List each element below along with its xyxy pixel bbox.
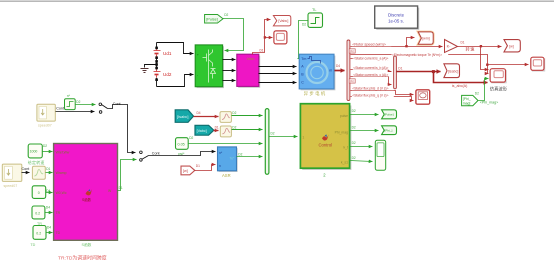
wire electromagnetic torque	[351, 55, 488, 65]
mux for stator currents	[394, 56, 397, 89]
svg-text:D4: D4	[336, 64, 340, 68]
wire Vabc out B to machine	[259, 73, 297, 75]
wire ASR to mux	[237, 156, 263, 158]
wire TL to machine Tm	[298, 21, 309, 59]
from tag [Pulse] green	[205, 13, 229, 23]
wire ground branch	[145, 65, 157, 68]
svg-text:Vabc: Vabc	[247, 57, 255, 61]
svg-text:[w]: [w]	[183, 169, 188, 173]
svg-text:TL: TL	[312, 8, 316, 12]
goto tag [Isabc]	[444, 64, 460, 78]
manual switch 2	[140, 151, 160, 161]
svg-text:D2: D2	[271, 132, 275, 136]
svg-text:<Stator current is_b (A)>: <Stator current is_b (A)>	[353, 66, 388, 70]
scope waveforms (4 input)	[490, 69, 508, 93]
powergui block	[375, 6, 419, 30]
from tag [Vabc] teal	[195, 125, 219, 135]
svg-text:D2: D2	[352, 126, 356, 130]
svg-text:D2: D2	[352, 141, 356, 145]
scope (Vab scope)	[274, 31, 287, 44]
wire Vabc out A to machine	[259, 66, 297, 68]
wire Phi_mag to scope2	[479, 79, 489, 101]
from file block (speed)	[37, 104, 55, 127]
svg-text:Ud2: Ud2	[163, 72, 172, 77]
tiny tag row2	[349, 49, 355, 53]
wire rotor speed	[351, 46, 443, 48]
wire bridge out A	[223, 59, 236, 61]
svg-text:Wref,Ww: Wref,Ww	[56, 150, 70, 154]
tiny tag row6	[349, 79, 355, 83]
svg-text:D2: D2	[232, 125, 236, 129]
svg-text:Te*: Te*	[230, 156, 236, 160]
wire Control out k_t	[350, 146, 373, 148]
svg-text:[Phi_]: [Phi_]	[384, 129, 392, 133]
wire stator current is_c	[351, 77, 392, 85]
wire DC bottom to bridge	[157, 75, 194, 87]
wire Pulse to bridge gate	[223, 19, 244, 51]
svg-text:Ud1: Ud1	[163, 51, 172, 56]
mux (4 signals)	[265, 109, 269, 175]
svg-text:<Phi_mag>: <Phi_mag>	[480, 101, 498, 105]
wire switch1 to switch2	[108, 105, 136, 153]
wire bridge out B	[223, 70, 236, 72]
manual switch 1	[99, 102, 121, 113]
svg-text:speed07: speed07	[4, 184, 18, 188]
svg-text:[wm]: [wm]	[422, 37, 429, 41]
constant 0	[32, 186, 50, 199]
svg-text:1e-05 s.: 1e-05 s.	[388, 19, 404, 24]
svg-text:[Pulse]: [Pulse]	[384, 113, 394, 117]
svg-text:0.2: 0.2	[35, 212, 40, 216]
svg-text:k_t: k_t	[343, 145, 348, 149]
svg-text:1: 1	[302, 135, 304, 139]
svg-text:D1: D1	[119, 186, 123, 190]
svg-text:D1: D1	[196, 164, 200, 168]
scope Te	[531, 57, 545, 71]
from tag [Isabc] teal	[175, 110, 201, 123]
svg-text:<Stator flux phis_q (V s)>: <Stator flux phis_q (V s)>	[352, 93, 388, 97]
constant 1000 (speed set)	[28, 144, 48, 165]
wire Isabc to filter1	[194, 116, 219, 118]
wire stator flux phis_q	[351, 97, 414, 101]
universal bridge U1 (IGBT inverter)	[195, 45, 224, 88]
svg-text:D2: D2	[76, 100, 80, 104]
wire 0.2TD to sfun	[47, 232, 53, 234]
wire gain to goto w	[458, 46, 502, 48]
svg-text:n: n	[219, 164, 221, 168]
goto tag [wm] highlighted	[418, 32, 433, 44]
constant 0.2 TD	[30, 226, 51, 248]
from tag [Phi] green	[462, 92, 480, 106]
svg-text:0.05: 0.05	[178, 142, 185, 146]
wire Control out Phi_mag	[350, 130, 379, 132]
svg-text:Discrete: Discrete	[388, 13, 405, 18]
constant 0.2 TR	[32, 206, 50, 226]
wire step to switch1	[76, 104, 96, 106]
svg-text:<Stator flux phis_d (V s)>: <Stator flux phis_d (V s)>	[352, 87, 388, 91]
wire fromfile to switch1	[56, 111, 95, 113]
svg-text:给定转速: 给定转速	[28, 159, 45, 165]
wire is_abc to scope2	[434, 72, 488, 83]
svg-text:D2: D2	[238, 153, 242, 157]
three-phase measurement block Vabc (magenta)	[237, 54, 260, 88]
svg-text:D2: D2	[43, 144, 47, 148]
svg-text:<Electromagnetic torque Te (N*: <Electromagnetic torque Te (N*m)>	[392, 53, 442, 57]
svg-text:D1: D1	[398, 67, 402, 71]
wire machine m to bus selector	[335, 70, 345, 72]
goto tag [Phi] green	[382, 126, 397, 135]
wire 0.2TR to sfun	[45, 212, 53, 214]
from tag [w] red	[181, 164, 200, 175]
svg-text:异步电机: 异步电机	[304, 90, 327, 97]
svg-text:+: +	[197, 53, 199, 57]
svg-text:D2: D2	[302, 22, 306, 26]
svg-text:D2: D2	[475, 92, 479, 96]
ramp filter block	[32, 166, 50, 179]
svg-text:TD: TD	[30, 243, 35, 247]
wire torque to scope1	[488, 64, 529, 66]
step source TL	[302, 8, 323, 27]
svg-text:D1: D1	[46, 167, 50, 171]
svg-text:D2: D2	[232, 111, 236, 115]
svg-text:speed07: speed07	[38, 124, 52, 128]
wire DC top to bridge	[157, 43, 194, 54]
svg-text:Wramp: Wramp	[56, 171, 67, 175]
svg-text:W0,Wc: W0,Wc	[56, 191, 67, 195]
svg-text:-: -	[197, 74, 198, 78]
svg-text:D4: D4	[47, 226, 51, 230]
svg-text:D2: D2	[352, 109, 356, 113]
ground	[141, 69, 149, 73]
svg-text:[A]: [A]	[350, 79, 354, 83]
svg-text:0.2: 0.2	[36, 232, 41, 236]
svg-text:mag]: mag]	[463, 101, 471, 105]
svg-text:ASR: ASR	[222, 173, 231, 178]
wire stator current is_a	[351, 58, 392, 60]
wire ramp to sfun	[46, 172, 53, 174]
svg-text:[Isabc]: [Isabc]	[448, 69, 459, 73]
svg-text:Cont: Cont	[22, 167, 30, 171]
wire Vabc to filter2	[214, 130, 219, 132]
wire mux to Control	[269, 136, 298, 138]
svg-text:D2: D2	[352, 156, 356, 160]
node junction dots DC bus	[155, 47, 158, 81]
goto tag [Pulse] green	[382, 110, 397, 119]
svg-text:D1: D1	[461, 40, 465, 44]
wire w to ASR	[195, 165, 216, 171]
svg-text:k_s1: k_s1	[341, 160, 348, 164]
wire Vabc measurement up to goto/scope	[253, 20, 271, 55]
svg-text:0: 0	[38, 191, 40, 195]
svg-text:[Vabc]: [Vabc]	[278, 19, 288, 23]
svg-text:<Stator current is_c (A)>: <Stator current is_c (A)>	[353, 73, 388, 77]
wire is_abc to goto	[397, 71, 441, 73]
svg-text:Cont: Cont	[152, 152, 160, 156]
svg-text:[Vabc]: [Vabc]	[197, 129, 207, 133]
wire Control out pulse	[350, 114, 379, 116]
wire speed to scope2	[481, 47, 489, 70]
svg-text:TR: TR	[56, 211, 61, 215]
svg-text:S函数: S函数	[82, 197, 92, 202]
gain (speed scaling)	[445, 40, 476, 53]
svg-text:[Pulse]: [Pulse]	[206, 18, 218, 22]
svg-text:is_abc(A): is_abc(A)	[452, 84, 468, 88]
battery Ud1	[152, 49, 172, 57]
wire bridge out C	[223, 80, 236, 82]
svg-text:D1: D1	[215, 125, 219, 129]
svg-text:D2: D2	[224, 13, 228, 17]
wire stator flux phis_d	[351, 91, 414, 95]
svg-text:Tm: Tm	[301, 57, 306, 61]
wire sfun output to switch2	[118, 160, 137, 191]
svg-text:[Isabc]: [Isabc]	[177, 114, 188, 119]
wire branch to goto wm	[407, 38, 415, 47]
filter block 1	[220, 111, 237, 123]
svg-text:[w]: [w]	[509, 44, 514, 48]
battery Ud2	[152, 69, 172, 77]
wire torque to scope2	[488, 65, 489, 74]
wire filter1 to mux	[232, 115, 263, 117]
svg-text:C: C	[301, 81, 304, 85]
Control block (MATLAB fcn)	[300, 104, 351, 178]
wire DC vertical bus	[156, 43, 158, 87]
XY graph (flux)	[416, 90, 430, 104]
svg-text:Cont: Cont	[56, 107, 64, 111]
svg-text:D2: D2	[189, 136, 193, 140]
goto tag [w]	[504, 40, 520, 52]
svg-text:D1: D1	[260, 48, 264, 52]
wire 0 to sfun	[46, 192, 53, 194]
step source n*	[65, 94, 81, 109]
svg-text:pulse: pulse	[340, 114, 348, 118]
wire filter2 to mux	[232, 129, 263, 131]
wire fromfile2 to ramp filter	[22, 172, 30, 174]
wire 1000 to sfun	[43, 151, 53, 153]
ASR block	[218, 147, 243, 178]
wire 0.05 to mux	[189, 143, 263, 145]
svg-text:<Stator current is_a (A)>: <Stator current is_a (A)>	[353, 57, 388, 61]
svg-text:D4: D4	[46, 206, 50, 210]
svg-text:仿真波形: 仿真波形	[490, 85, 508, 92]
asynchronous machine	[299, 54, 335, 97]
svg-text:Phi_mag: Phi_mag	[335, 130, 348, 134]
wire Vabc out C to machine	[259, 82, 297, 84]
svg-text:TD: TD	[56, 231, 61, 235]
bus selector	[347, 40, 350, 101]
svg-text:1000: 1000	[30, 150, 38, 154]
goto tag [Vabc] red	[273, 16, 290, 26]
svg-text:m: m	[329, 69, 332, 73]
svg-text:D4: D4	[197, 111, 201, 115]
constant 0.05 (flux reference)	[176, 136, 194, 156]
S-function block (speed profile, big magenta)	[54, 144, 118, 248]
window top border	[0, 1, 554, 2]
wire switch2 to ASR n*	[149, 152, 216, 156]
wire stator current is_b	[351, 70, 392, 72]
filter block 2	[220, 125, 236, 137]
svg-text:<Rotor speed (wm)>: <Rotor speed (wm)>	[352, 42, 387, 46]
svg-text:S函数: S函数	[82, 242, 92, 247]
svg-text:[A]: [A]	[350, 49, 354, 53]
wire Control out k_s1	[350, 161, 373, 162]
svg-text:Control: Control	[319, 142, 333, 147]
from file block 2 (speed)	[2, 164, 22, 188]
scope k (vertical)	[375, 140, 385, 170]
